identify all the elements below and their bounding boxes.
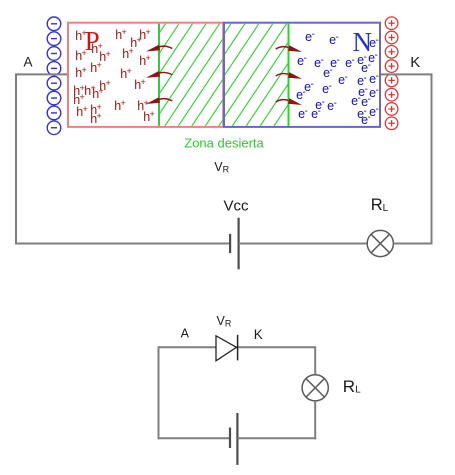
depletion zone right boundary line [288, 24, 290, 126]
svg-text:A: A [181, 326, 190, 340]
battery Vcc symbol [230, 218, 239, 269]
battery symbol (bottom circuit) [230, 413, 237, 465]
wire battery to lamp [239, 243, 368, 245]
drift arrow N-side 2 [276, 72, 302, 79]
wire bottom-left to battery [15, 243, 229, 245]
depletion zone hatch (N side) [102, 17, 389, 134]
wire bottom-left to battery (bottom circuit) [158, 437, 230, 439]
drift arrow P-side 1 [146, 45, 172, 52]
wire lamp to right vertical [393, 243, 431, 245]
diode D1 cathode bar [237, 335, 239, 361]
diode D1 triangle [216, 336, 237, 361]
svg-text:Vcc: Vcc [223, 198, 249, 215]
wire right vertical [431, 73, 433, 244]
wire anode A horizontal [16, 73, 68, 75]
svg-text:K: K [254, 327, 263, 342]
holes h+ in P region [73, 27, 155, 126]
drift arrow N-side 1 [276, 45, 302, 52]
wire battery to right side (bottom circuit) [237, 437, 316, 439]
depletion zone hatch (P side) [38, 17, 319, 134]
lamp RL (bottom circuit) [302, 375, 328, 401]
negative ion column at anode contact [47, 17, 61, 135]
wire right side upper (K to lamp) [314, 346, 316, 375]
svg-text:Zona desierta: Zona desierta [184, 136, 264, 151]
N region rectangle (cathode side) [224, 23, 380, 127]
wire lamp to bottom-right corner [314, 401, 316, 439]
electrons e- in N region [296, 29, 379, 127]
svg-text:A: A [23, 55, 32, 70]
drift arrow N-side 3 [276, 98, 302, 105]
P region rectangle (anode side) [68, 23, 223, 127]
wire left vertical [15, 73, 17, 244]
svg-text:K: K [410, 54, 420, 71]
wire left side of loop [158, 346, 160, 439]
lamp RL (top circuit) [367, 230, 393, 256]
wire cathode K horizontal [380, 73, 432, 75]
svg-text:N: N [353, 27, 373, 57]
drift arrow P-side 3 [146, 97, 172, 104]
positive ion column at cathode contact [385, 17, 398, 130]
svg-text:P: P [85, 26, 100, 56]
wire top side of loop (A to K) [159, 346, 316, 348]
depletion zone left boundary line [158, 24, 160, 126]
drift arrow P-side 2 [146, 71, 172, 78]
